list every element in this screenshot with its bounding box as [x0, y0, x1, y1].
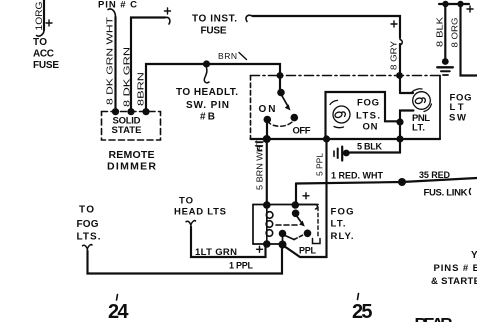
svg-text:LT.: LT. [412, 123, 425, 134]
wire 8 ORG [461, 4, 477, 76]
svg-text:FUS. LINK: FUS. LINK [424, 188, 468, 199]
relay bottom terminal dot coil [263, 240, 271, 248]
pin dot 8 BRN [142, 108, 149, 115]
node TO HEAD LTS [174, 196, 226, 218]
svg-text:8 BLK: 8 BLK [435, 17, 445, 47]
svg-text:PINS # B: PINS # B [434, 263, 477, 274]
relay armature arrow [296, 215, 305, 227]
svg-text:SW: SW [449, 113, 466, 124]
fog lt relay box [253, 205, 318, 245]
ground (5 BLK chassis ground) [334, 147, 350, 161]
svg-text:24: 24 [108, 301, 129, 322]
svg-text:# B: # B [200, 112, 215, 123]
svg-text:Y: Y [471, 250, 477, 261]
label PNL LT. [412, 113, 430, 134]
switch pole dot [277, 89, 285, 97]
svg-text:FUSE: FUSE [33, 60, 59, 71]
switch contact OFF [291, 114, 299, 122]
label FOG LT SW [449, 93, 472, 124]
svg-text:TO: TO [33, 37, 47, 48]
wire BRN from remote dimmer to fog lt sw [146, 64, 280, 112]
junction dot 35 RED [398, 178, 406, 186]
connector hook TO HEAD LTS [186, 221, 196, 227]
svg-text:TO INST.: TO INST. [192, 14, 237, 25]
svg-text:& STARTE: & STARTE [431, 276, 477, 287]
relay contact dot (NO) [304, 230, 312, 238]
plus terminal mark (top right) [467, 6, 473, 12]
svg-text:1 RED. WHT: 1 RED. WHT [331, 171, 384, 181]
relay box corner bracket [313, 239, 321, 244]
relay blade dash-dot link [285, 236, 294, 240]
svg-text:5 BRN WHT: 5 BRN WHT [255, 140, 265, 190]
label REMOTE DIMMER [107, 149, 156, 173]
svg-text:TO: TO [79, 205, 94, 216]
svg-text:TO HEADLT.: TO HEADLT. [176, 87, 238, 98]
wire 8 DK GRN to inst fuse [131, 17, 170, 111]
svg-text:PIN # C: PIN # C [98, 0, 137, 11]
svg-text:8 DK GRN WHT: 8 DK GRN WHT [105, 17, 115, 105]
wire 5 PPL from switch to relay [284, 139, 327, 257]
node TO ACC FUSE [33, 37, 59, 71]
node TO HEADLT. SW. PIN # B [176, 87, 238, 123]
svg-text:PPL: PPL [299, 246, 317, 256]
svg-text:DIMMER: DIMMER [107, 161, 156, 173]
relay terminal dot 1 RED WHT [292, 201, 300, 209]
label FOG LT. RLY. [331, 207, 354, 243]
switch contact ON [264, 116, 272, 124]
svg-text:1 PPL: 1 PPL [229, 261, 254, 271]
pin dot 8 DK GRN [127, 108, 134, 115]
svg-text:1LT GRN: 1LT GRN [195, 247, 237, 258]
svg-text:35 RED: 35 RED [419, 170, 451, 180]
node TO FOG LTS. [77, 205, 101, 243]
pin dot 8 DK GRN WHT [112, 108, 119, 115]
junction dot 5 BLK [396, 135, 403, 142]
junction BRN headlamp tap [203, 60, 210, 67]
svg-text:SW. PIN: SW. PIN [186, 100, 229, 111]
relay armature pivot dot [292, 210, 300, 218]
junction dot 8 ORG [457, 1, 463, 7]
label SOLID STATE [112, 116, 142, 137]
svg-text:ON: ON [259, 104, 276, 115]
wire 8 GRY feed from inst fuse [246, 15, 402, 93]
svg-text:8 DK GRN: 8 DK GRN [122, 47, 132, 107]
svg-text:FOG: FOG [331, 207, 354, 218]
relay coil [266, 205, 273, 244]
plus terminal mark (ACC) [46, 20, 52, 26]
svg-text:FOG: FOG [357, 98, 379, 109]
switch travel arc (dashed) [267, 120, 294, 127]
relay blade stub [282, 235, 284, 242]
wire ON contact drop [266, 121, 268, 139]
connector hook to headlt sw [204, 68, 209, 83]
svg-text:BRN: BRN [218, 51, 237, 61]
svg-text:RLY.: RLY. [331, 231, 354, 242]
wire 5 BLK to ground [350, 139, 400, 153]
svg-text:ACC: ACC [33, 49, 54, 60]
remote dimmer module (solid state) [102, 112, 161, 141]
wire switch output bus y139 [251, 138, 441, 140]
connector marks at bus left end [256, 142, 264, 151]
relay bottom terminal dot output [279, 241, 287, 249]
plus terminal mark (relay coil gnd) [257, 246, 263, 252]
svg-text:STATE: STATE [112, 125, 142, 136]
lamp PNL LT [400, 89, 432, 139]
svg-text:LT.: LT. [331, 219, 346, 230]
junction dot 8 BLK [442, 1, 448, 7]
switch blade arrow [282, 95, 291, 111]
relay coil-armature dashed link [276, 224, 297, 226]
tick above 24 [117, 295, 118, 301]
relay box dashed right edge [317, 207, 319, 237]
relay blade contact dot [279, 230, 287, 238]
svg-text:8 ORG: 8 ORG [450, 18, 460, 48]
junction dot 5 BRN WHT [263, 135, 271, 143]
svg-text:ON: ON [363, 122, 378, 133]
junction dot at pnl lt branch [396, 118, 403, 125]
svg-text:FOG: FOG [77, 219, 99, 230]
wire 5 BRN WHT to relay [266, 139, 268, 205]
svg-text:5 BLK: 5 BLK [357, 142, 383, 152]
connector hook TO FOG LTS [83, 245, 93, 251]
junction dot 5 PPL (lamp box) [323, 135, 330, 142]
wire 1 ORG to ACC fuse [37, 0, 45, 36]
svg-text:TO: TO [179, 196, 193, 207]
svg-text:8 GRY: 8 GRY [389, 41, 399, 70]
node TO INST. FUSE [192, 14, 237, 37]
label FOG LTS. ON [356, 98, 380, 133]
plus terminal mark (8 GRY) [391, 21, 397, 27]
svg-text:REMOTE: REMOTE [109, 149, 155, 161]
wire BRN arrow tick [239, 53, 247, 60]
partial letter after fus link [469, 189, 470, 195]
ground (8 BLK earth ground) [437, 58, 453, 75]
svg-text:LTS.: LTS. [77, 232, 101, 243]
wire 1 RED WHT / 35 RED battery feed [296, 178, 477, 184]
wire 1 PPL to fog lamps [88, 246, 283, 274]
relay terminal dot 5 BRN WHT [263, 201, 271, 209]
svg-text:OFF: OFF [293, 126, 311, 137]
wire top-right bus [439, 3, 469, 5]
plus terminal mark (relay feed) [303, 193, 309, 199]
fog lt sw housing (dashed box) [251, 76, 441, 140]
lamp FOG LTS ON [330, 100, 350, 127]
svg-text:HEAD LTS: HEAD LTS [174, 207, 226, 218]
svg-text:LT: LT [450, 102, 464, 113]
svg-text:5 PPL: 5 PPL [315, 153, 325, 176]
tick above 25 [358, 294, 359, 300]
svg-text:1ORG: 1ORG [34, 2, 44, 31]
svg-text:FUSE: FUSE [201, 26, 227, 37]
terminal dot BRN at housing [277, 72, 284, 79]
svg-text:REAR: REAR [415, 315, 453, 322]
svg-text:8BRN: 8BRN [136, 72, 146, 106]
terminal dot 8 GRY at housing [396, 72, 403, 79]
plus terminal mark (inst fuse) [165, 8, 171, 14]
fog lts on indicator box [326, 92, 401, 139]
svg-text:LTS.: LTS. [356, 111, 380, 122]
fog lt sw housing right edge [439, 76, 441, 140]
connector hook at relay terminal [297, 205, 317, 210]
svg-text:25: 25 [352, 301, 373, 322]
wire 8 DK GRN WHT [108, 9, 116, 112]
wire 8 BLK [444, 4, 446, 58]
wire 1 LT GRN headlamp feed [191, 227, 266, 257]
